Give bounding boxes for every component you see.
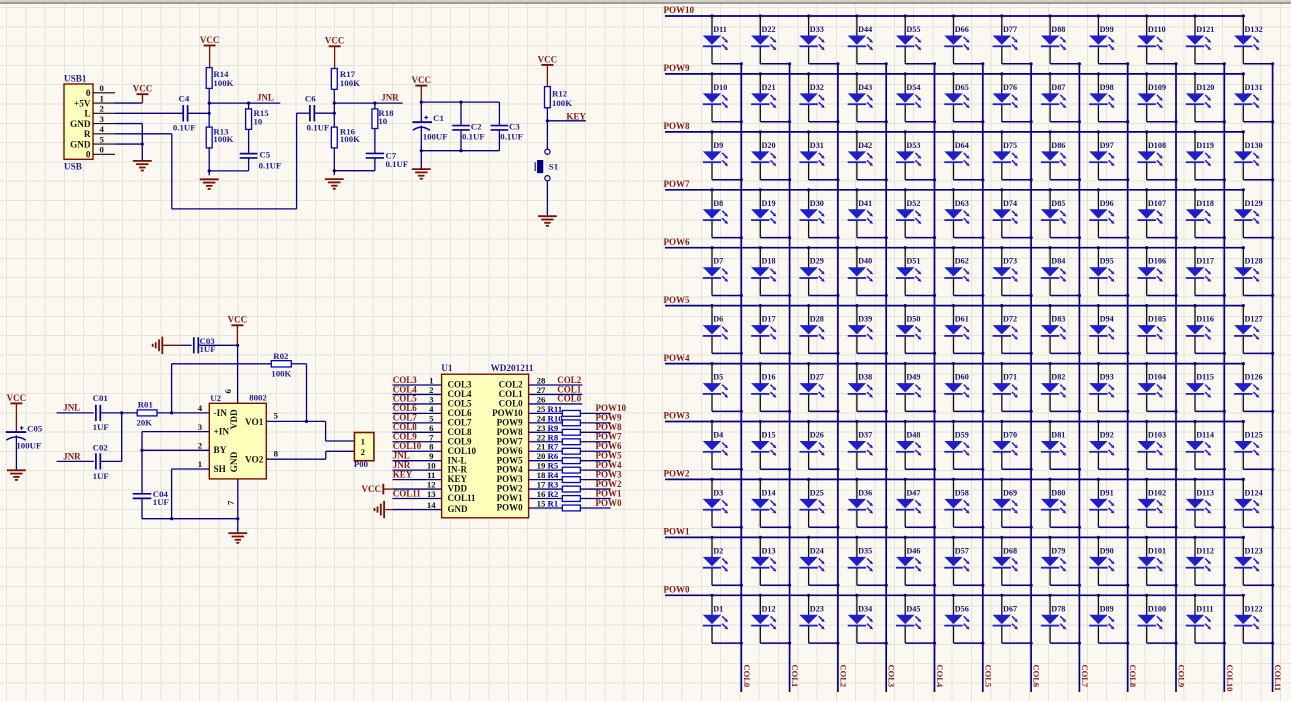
svg-text:D35: D35: [858, 546, 872, 555]
svg-text:POW10: POW10: [664, 5, 695, 15]
LED D131: [1234, 72, 1274, 123]
LED D39: [848, 304, 888, 355]
svg-text:D54: D54: [906, 83, 920, 92]
svg-text:D43: D43: [858, 83, 872, 92]
column wire COL4: [934, 64, 936, 692]
wire POW2: [580, 488, 610, 490]
LED D14: [751, 478, 791, 529]
ground (C03): [153, 337, 163, 354]
wire VO1: [266, 421, 354, 441]
LED D5: [703, 362, 743, 413]
LED D45: [896, 594, 936, 645]
svg-text:D82: D82: [1051, 373, 1065, 382]
svg-text:D21: D21: [762, 83, 776, 92]
capacitor C3: [491, 102, 523, 151]
svg-text:D83: D83: [1051, 315, 1065, 324]
wire C03 to VDD node: [198, 344, 237, 346]
row wire POW4: [665, 363, 1243, 365]
LED D29: [799, 246, 839, 297]
LED D64: [944, 130, 984, 181]
LED D72: [993, 304, 1033, 355]
svg-text:20K: 20K: [137, 417, 153, 427]
power VCC (USB +5V): [133, 84, 153, 103]
svg-text:D128: D128: [1245, 257, 1263, 266]
pin 25 of U1: [529, 404, 563, 414]
svg-text:D7: D7: [713, 257, 723, 266]
pin 14 of U1: [384, 500, 442, 510]
pin 0 of USB1: [93, 145, 115, 155]
svg-text:R1: R1: [548, 498, 559, 508]
svg-text:COL0: COL0: [742, 665, 752, 688]
svg-text:1UF: 1UF: [153, 497, 169, 507]
svg-text:D62: D62: [955, 257, 969, 266]
svg-text:POW1: POW1: [664, 527, 690, 537]
svg-text:COL11: COL11: [1273, 665, 1283, 691]
svg-text:GND: GND: [70, 119, 91, 129]
pin 6 VDD of U2: [223, 345, 237, 403]
LED D60: [944, 362, 984, 413]
wire C6 to node: [314, 112, 334, 114]
svg-text:COL9: COL9: [1177, 665, 1187, 688]
svg-text:D85: D85: [1051, 199, 1065, 208]
connector USB1: [64, 74, 93, 172]
svg-text:C3: C3: [509, 121, 520, 131]
wire R15 to C5: [248, 129, 250, 153]
svg-text:U2: U2: [210, 393, 221, 403]
wire VO2: [266, 451, 354, 459]
LED D89: [1089, 594, 1129, 645]
ground (U1 GND): [375, 501, 385, 518]
pin 18 of U1: [529, 470, 563, 480]
pin 2 of U1: [393, 385, 442, 395]
wire POW3: [580, 479, 610, 481]
svg-text:D130: D130: [1245, 141, 1263, 150]
LED D108: [1138, 130, 1178, 181]
LED D77: [993, 14, 1033, 65]
svg-text:COL4: COL4: [935, 665, 945, 688]
junction R18: [373, 102, 376, 105]
connector P00: [354, 433, 374, 469]
LED D92: [1089, 420, 1129, 471]
svg-text:VCC: VCC: [412, 75, 432, 85]
svg-text:VO2: VO2: [245, 456, 264, 466]
wire BY: [142, 449, 209, 451]
pin 6 of U1: [393, 423, 442, 433]
row wire POW7: [665, 189, 1243, 191]
svg-text:C4: C4: [179, 93, 190, 103]
junction: [333, 169, 336, 172]
svg-text:D39: D39: [858, 315, 872, 324]
LED D42: [848, 130, 888, 181]
svg-text:GND: GND: [448, 504, 469, 514]
svg-text:D108: D108: [1148, 141, 1166, 150]
wire C04 to bottom rail: [142, 498, 238, 518]
row wire POW10: [665, 15, 1243, 17]
LED D44: [848, 14, 888, 65]
LED D54: [896, 72, 936, 123]
svg-text:POW7: POW7: [664, 179, 690, 189]
wire C02 to node: [100, 413, 121, 462]
svg-text:D46: D46: [906, 546, 920, 555]
capacitor C1 (polarized): [412, 102, 447, 151]
LED D117: [1186, 246, 1226, 297]
LED D13: [751, 536, 791, 587]
LED D33: [799, 14, 839, 65]
pin 22 of U1: [529, 432, 563, 442]
IC U1 WD201211: [441, 363, 534, 518]
svg-text:VCC: VCC: [228, 315, 248, 325]
svg-text:C1: C1: [433, 113, 444, 123]
LED D36: [848, 478, 888, 529]
svg-text:D22: D22: [762, 25, 776, 34]
pin 0 of USB1: [93, 83, 115, 93]
svg-text:D59: D59: [955, 431, 969, 440]
column wire COL0: [740, 64, 742, 692]
LED D62: [944, 246, 984, 297]
svg-text:D94: D94: [1100, 315, 1114, 324]
column wire COL7: [1078, 64, 1080, 692]
wire SH: [172, 469, 210, 519]
svg-text:COL1: COL1: [790, 665, 800, 688]
resistor R11: [548, 404, 581, 416]
LED D124: [1234, 478, 1274, 529]
svg-text:D110: D110: [1148, 25, 1166, 34]
wire to ground: [237, 519, 239, 534]
svg-text:D63: D63: [955, 199, 969, 208]
svg-text:10: 10: [378, 116, 387, 126]
LED D73: [993, 246, 1033, 297]
pin 27 of U1: [529, 385, 583, 395]
svg-text:+IN: +IN: [214, 428, 230, 438]
LED D122: [1234, 594, 1274, 645]
column wire COL1: [789, 64, 791, 692]
LED D2: [703, 536, 743, 587]
svg-text:3: 3: [198, 422, 203, 432]
pin 10 of U1: [393, 461, 442, 471]
svg-text:100K: 100K: [213, 134, 233, 144]
svg-text:VCC: VCC: [538, 54, 558, 64]
LED D94: [1089, 304, 1129, 355]
svg-text:KEY: KEY: [566, 112, 586, 122]
junction C4: [208, 112, 211, 115]
svg-text:D34: D34: [858, 604, 872, 613]
svg-text:D73: D73: [1003, 257, 1017, 266]
resistor R15: [246, 103, 270, 129]
svg-text:D10: D10: [713, 83, 727, 92]
LED D52: [896, 188, 936, 239]
ground (filter): [412, 169, 431, 179]
LED D11: [703, 14, 743, 65]
svg-text:D56: D56: [955, 604, 969, 613]
svg-text:VCC: VCC: [325, 36, 345, 46]
pin 8 of U1: [393, 442, 442, 452]
svg-text:D96: D96: [1100, 199, 1114, 208]
junction: [170, 411, 173, 414]
svg-text:0: 0: [100, 145, 105, 155]
LED D78: [1041, 594, 1081, 645]
svg-text:D61: D61: [955, 315, 969, 324]
junction node JNL: [208, 102, 211, 105]
capacitor C2: [452, 102, 485, 151]
svg-text:POW8: POW8: [664, 121, 690, 131]
svg-text:D77: D77: [1003, 25, 1017, 34]
svg-text:D112: D112: [1196, 546, 1214, 555]
LED D88: [1041, 14, 1081, 65]
ground (USB): [133, 161, 152, 171]
LED D41: [848, 188, 888, 239]
svg-text:GND: GND: [230, 451, 240, 472]
LED D130: [1234, 130, 1274, 181]
svg-text:COL11: COL11: [393, 488, 422, 498]
svg-text:D100: D100: [1148, 604, 1166, 613]
svg-text:D70: D70: [1003, 431, 1017, 440]
LED D40: [848, 246, 888, 297]
LED D34: [848, 594, 888, 645]
svg-text:D50: D50: [906, 315, 920, 324]
svg-text:D8: D8: [713, 199, 723, 208]
svg-text:0.1UF: 0.1UF: [259, 161, 282, 171]
svg-text:D65: D65: [955, 83, 969, 92]
wire GND pin4: [115, 124, 142, 145]
LED D90: [1089, 536, 1129, 587]
LED D103: [1138, 420, 1178, 471]
resistor R8: [548, 432, 581, 444]
svg-text:D69: D69: [1003, 488, 1017, 497]
LED D69: [993, 478, 1033, 529]
junction node JNR: [333, 102, 336, 105]
svg-text:L: L: [84, 109, 90, 119]
LED D7: [703, 246, 743, 297]
svg-text:1: 1: [100, 93, 104, 103]
pin 20 of U1: [529, 451, 563, 461]
power VCC (U1 VDD): [362, 484, 442, 495]
svg-text:C2: C2: [471, 121, 482, 131]
svg-text:POW9: POW9: [664, 63, 690, 73]
svg-text:D13: D13: [762, 546, 776, 555]
svg-text:D23: D23: [810, 604, 824, 613]
LED D28: [799, 304, 839, 355]
svg-text:POW6: POW6: [664, 237, 690, 247]
svg-text:D129: D129: [1245, 199, 1263, 208]
svg-text:D33: D33: [810, 25, 824, 34]
svg-text:D123: D123: [1245, 546, 1263, 555]
LED D93: [1089, 362, 1129, 413]
svg-text:0.1UF: 0.1UF: [307, 123, 330, 133]
svg-text:15: 15: [537, 498, 546, 508]
svg-text:D71: D71: [1003, 373, 1017, 382]
LED D26: [799, 420, 839, 471]
svg-text:D12: D12: [762, 604, 776, 613]
LED D84: [1041, 246, 1081, 297]
LED D68: [993, 536, 1033, 587]
LED D30: [799, 188, 839, 239]
svg-text:D99: D99: [1100, 25, 1114, 34]
LED D121: [1186, 14, 1226, 65]
LED D48: [896, 420, 936, 471]
pin 5 of USB1: [93, 134, 115, 144]
LED D32: [799, 72, 839, 123]
LED D49: [896, 362, 936, 413]
svg-text:D93: D93: [1100, 373, 1114, 382]
ground (amp): [228, 533, 247, 543]
junction C6: [333, 112, 336, 115]
svg-text:D11: D11: [713, 25, 727, 34]
svg-text:D40: D40: [858, 257, 872, 266]
wire L to C4: [115, 112, 183, 114]
wire R18 to C7: [374, 129, 376, 154]
svg-text:+5V: +5V: [74, 98, 91, 108]
wire C01 to node: [100, 412, 137, 414]
LED D37: [848, 420, 888, 471]
capacitor C01: [93, 393, 109, 432]
svg-text:D45: D45: [906, 604, 920, 613]
pin 24 of U1: [529, 413, 563, 423]
column wire COL9: [1175, 64, 1177, 692]
LED D46: [896, 536, 936, 587]
svg-text:D118: D118: [1196, 199, 1214, 208]
LED D79: [1041, 536, 1081, 587]
svg-text:D87: D87: [1051, 83, 1065, 92]
op-amp U2 8002: [209, 393, 267, 479]
LED D22: [751, 14, 791, 65]
svg-text:D55: D55: [906, 25, 920, 34]
wire S1 to ground: [546, 181, 548, 216]
LED D35: [848, 536, 888, 587]
LED D43: [848, 72, 888, 123]
svg-text:R02: R02: [273, 351, 289, 361]
svg-text:D28: D28: [810, 315, 824, 324]
pin 21 of U1: [529, 442, 563, 452]
row wire POW9: [665, 73, 1243, 75]
svg-text:D16: D16: [762, 373, 776, 382]
junction: [236, 517, 239, 520]
LED D21: [751, 72, 791, 123]
LED D82: [1041, 362, 1081, 413]
svg-text:POW0: POW0: [664, 585, 690, 595]
pin 4 of USB1: [93, 124, 115, 134]
LED D129: [1234, 188, 1274, 239]
row wire POW3: [665, 421, 1243, 423]
LED D18: [751, 246, 791, 297]
svg-text:GND: GND: [70, 139, 91, 149]
wire R01 to -IN: [157, 412, 209, 414]
svg-text:D111: D111: [1196, 604, 1213, 613]
resistor R5: [548, 461, 581, 473]
junction KEY: [546, 119, 549, 122]
wire JNR: [57, 460, 94, 462]
pin 7 of U1: [393, 432, 442, 442]
LED D116: [1186, 304, 1226, 355]
svg-text:R01: R01: [138, 400, 153, 410]
svg-text:D68: D68: [1003, 546, 1017, 555]
LED D66: [944, 14, 984, 65]
pin 26 of U1: [529, 394, 583, 404]
wire feedback up: [171, 364, 173, 413]
LED D51: [896, 246, 936, 297]
ground (JNL divider): [200, 179, 219, 189]
column wire COL10: [1223, 64, 1225, 692]
LED D20: [751, 130, 791, 181]
power VCC (JNL divider): [200, 35, 220, 68]
wire KEY: [547, 120, 586, 122]
svg-text:D76: D76: [1003, 83, 1017, 92]
svg-text:JNL: JNL: [257, 92, 274, 102]
svg-text:C6: C6: [305, 93, 316, 103]
LED D50: [896, 304, 936, 355]
svg-text:D37: D37: [858, 431, 872, 440]
svg-text:D88: D88: [1051, 25, 1065, 34]
LED D70: [993, 420, 1033, 471]
wire POW0: [580, 507, 610, 509]
column wire COL3: [885, 64, 887, 692]
row wire POW5: [665, 305, 1243, 307]
junction R15: [247, 102, 250, 105]
LED D99: [1089, 14, 1129, 65]
svg-text:4: 4: [198, 403, 203, 413]
resistor R1: [548, 498, 581, 510]
svg-text:6: 6: [223, 389, 233, 394]
junction BY: [140, 449, 143, 452]
junction: [208, 169, 211, 172]
svg-text:D6: D6: [713, 315, 723, 324]
svg-text:8002: 8002: [249, 393, 267, 403]
svg-text:D106: D106: [1148, 257, 1166, 266]
junction: [420, 101, 423, 104]
svg-text:D113: D113: [1196, 488, 1214, 497]
svg-text:D31: D31: [810, 141, 824, 150]
svg-text:5: 5: [100, 134, 105, 144]
LED D75: [993, 130, 1033, 181]
svg-text:D120: D120: [1196, 83, 1214, 92]
LED D55: [896, 14, 936, 65]
LED D58: [944, 478, 984, 529]
svg-text:BY: BY: [214, 446, 227, 456]
power VCC (C05): [7, 393, 27, 432]
pin 23 of U1: [529, 423, 563, 433]
svg-text:D116: D116: [1196, 315, 1214, 324]
row wire POW8: [665, 131, 1243, 133]
wire POW8: [580, 431, 610, 433]
svg-text:D119: D119: [1196, 141, 1214, 150]
wire POW7: [580, 441, 610, 443]
pin 15 of U1: [529, 498, 563, 508]
svg-text:100K: 100K: [340, 78, 360, 88]
svg-text:P00: P00: [354, 459, 369, 469]
junction: [236, 344, 239, 347]
svg-text:U1: U1: [441, 363, 453, 373]
svg-text:COL6: COL6: [1032, 665, 1042, 688]
LED D120: [1186, 72, 1226, 123]
power VCC (filter): [412, 75, 432, 102]
capacitor C04: [133, 489, 169, 507]
switch S1: [535, 149, 558, 181]
wire POW9: [580, 422, 610, 424]
svg-text:D42: D42: [858, 141, 872, 150]
LED D105: [1138, 304, 1178, 355]
capacitor C02: [93, 442, 109, 481]
svg-text:D47: D47: [906, 488, 920, 497]
svg-text:D98: D98: [1100, 83, 1114, 92]
svg-text:D64: D64: [955, 141, 969, 150]
LED D3: [703, 478, 743, 529]
svg-text:D29: D29: [810, 257, 824, 266]
svg-text:D2: D2: [713, 546, 723, 555]
wire R12 to S1: [546, 108, 548, 149]
svg-text:D72: D72: [1003, 315, 1017, 324]
pin 7 of U2: [225, 479, 237, 519]
resistor R18: [372, 103, 394, 128]
svg-text:D15: D15: [762, 431, 776, 440]
